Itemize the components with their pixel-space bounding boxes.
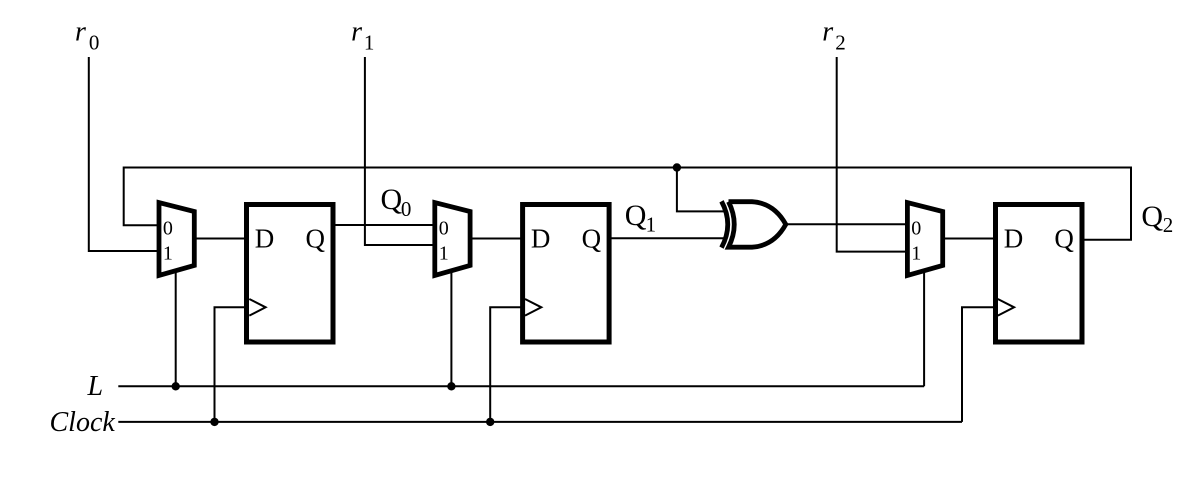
svg-text:Clock: Clock [50, 407, 116, 438]
svg-text:Q: Q [306, 224, 326, 254]
svg-text:D: D [1004, 224, 1024, 254]
svg-text:Q: Q [1054, 224, 1074, 254]
svg-text:Q: Q [381, 183, 403, 216]
svg-text:0: 0 [911, 218, 921, 240]
svg-text:0: 0 [163, 218, 173, 240]
svg-text:2: 2 [835, 31, 846, 55]
svg-text:1: 1 [646, 212, 657, 236]
svg-text:Q: Q [625, 199, 647, 232]
svg-text:L: L [87, 371, 104, 402]
svg-text:1: 1 [163, 243, 173, 265]
svg-text:1: 1 [364, 31, 375, 55]
svg-text:r: r [75, 17, 86, 48]
svg-text:D: D [531, 224, 551, 254]
svg-text:0: 0 [401, 197, 412, 221]
svg-text:1: 1 [439, 243, 449, 265]
svg-text:0: 0 [89, 31, 100, 55]
svg-text:r: r [351, 17, 362, 48]
svg-text:D: D [255, 224, 274, 254]
svg-text:r: r [822, 17, 833, 48]
svg-text:1: 1 [911, 243, 921, 265]
svg-text:2: 2 [1163, 213, 1174, 237]
svg-text:Q: Q [582, 224, 602, 254]
svg-text:Q: Q [1141, 200, 1163, 233]
svg-text:0: 0 [439, 218, 449, 240]
